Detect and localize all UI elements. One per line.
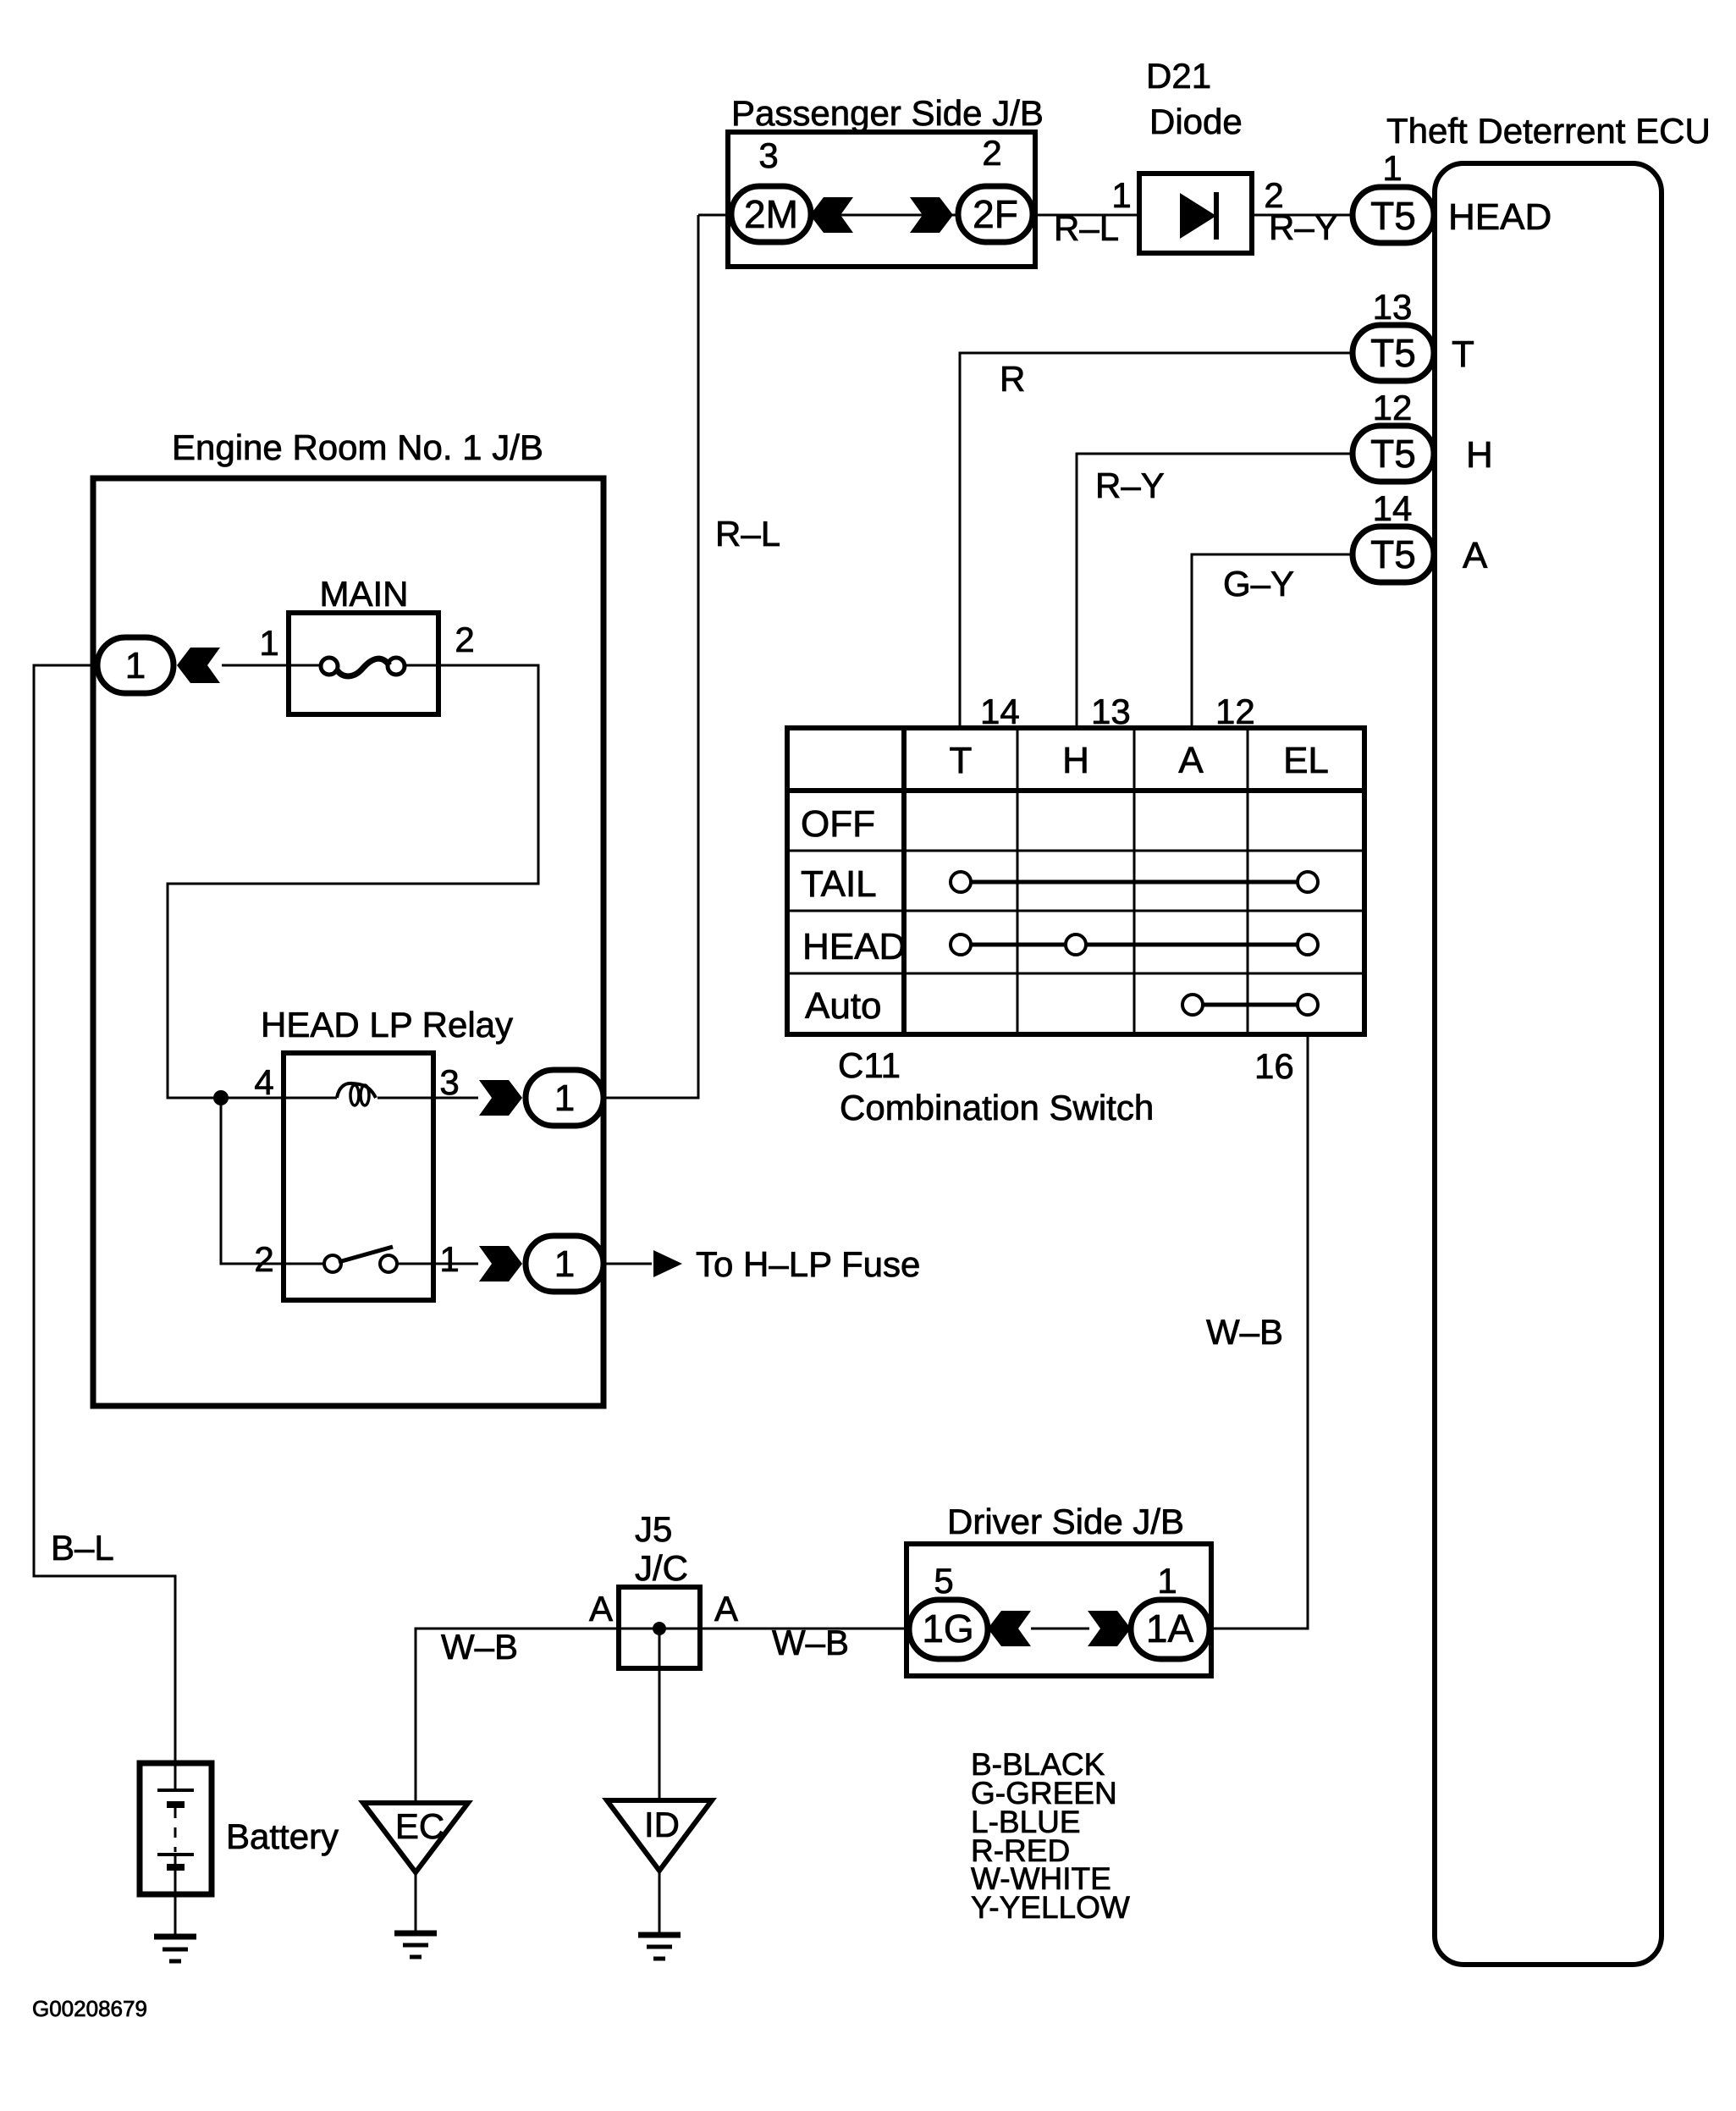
svg-text:R–Y: R–Y xyxy=(1269,207,1338,247)
svg-text:Driver Side J/B: Driver Side J/B xyxy=(947,1502,1184,1541)
svg-text:R–Y: R–Y xyxy=(1095,466,1165,505)
svg-text:R–L: R–L xyxy=(1054,208,1119,248)
svg-text:2: 2 xyxy=(254,1239,273,1279)
svg-text:J5: J5 xyxy=(635,1509,672,1549)
svg-text:EL: EL xyxy=(1283,740,1329,781)
svg-text:T: T xyxy=(1452,333,1474,375)
svg-text:Combination Switch: Combination Switch xyxy=(840,1088,1154,1127)
svg-text:1G: 1G xyxy=(922,1607,973,1651)
svg-text:A: A xyxy=(589,1589,613,1629)
svg-text:H: H xyxy=(1062,740,1089,781)
svg-text:T5: T5 xyxy=(1370,432,1416,476)
svg-text:Engine Room No. 1 J/B: Engine Room No. 1 J/B xyxy=(172,427,543,467)
svg-text:G00208679: G00208679 xyxy=(32,1996,147,2021)
svg-text:1: 1 xyxy=(439,1239,459,1279)
svg-text:12: 12 xyxy=(1215,692,1255,731)
svg-text:OFF: OFF xyxy=(801,803,875,845)
svg-text:2M: 2M xyxy=(744,192,798,236)
svg-text:Y-YELLOW: Y-YELLOW xyxy=(971,1890,1130,1925)
svg-text:H: H xyxy=(1466,434,1493,476)
svg-text:R: R xyxy=(1000,359,1025,399)
svg-text:Auto: Auto xyxy=(805,985,882,1027)
svg-text:W–B: W–B xyxy=(772,1623,849,1662)
svg-text:A: A xyxy=(1178,740,1204,781)
svg-text:5: 5 xyxy=(934,1561,953,1601)
svg-text:1: 1 xyxy=(1382,148,1402,188)
svg-text:TAIL: TAIL xyxy=(801,863,877,905)
svg-text:1: 1 xyxy=(259,623,278,663)
svg-text:R–L: R–L xyxy=(715,514,780,554)
svg-text:T: T xyxy=(950,740,973,781)
svg-text:4: 4 xyxy=(254,1062,273,1102)
svg-text:To H–LP Fuse: To H–LP Fuse xyxy=(696,1244,920,1284)
svg-text:Diode: Diode xyxy=(1149,102,1243,141)
svg-text:A: A xyxy=(714,1589,738,1629)
svg-text:Theft Deterrent ECU: Theft Deterrent ECU xyxy=(1386,111,1711,151)
svg-text:12: 12 xyxy=(1373,388,1413,427)
svg-text:T5: T5 xyxy=(1370,532,1416,576)
svg-text:16: 16 xyxy=(1254,1046,1294,1086)
svg-text:A: A xyxy=(1463,535,1488,576)
svg-text:HEAD: HEAD xyxy=(802,926,906,967)
svg-text:1: 1 xyxy=(125,645,146,686)
svg-text:1: 1 xyxy=(554,1243,575,1285)
svg-text:2F: 2F xyxy=(973,192,1018,236)
svg-text:14: 14 xyxy=(1373,488,1413,528)
svg-text:13: 13 xyxy=(1373,287,1413,327)
svg-text:1: 1 xyxy=(554,1078,575,1119)
svg-text:W–B: W–B xyxy=(441,1627,518,1667)
svg-text:D21: D21 xyxy=(1146,56,1211,96)
svg-text:14: 14 xyxy=(980,692,1020,731)
svg-text:EC: EC xyxy=(395,1806,444,1846)
svg-text:C11: C11 xyxy=(838,1045,901,1085)
svg-text:G–Y: G–Y xyxy=(1223,564,1294,604)
svg-text:J/C: J/C xyxy=(635,1548,688,1588)
svg-text:2: 2 xyxy=(455,620,474,659)
svg-text:Passenger Side J/B: Passenger Side J/B xyxy=(731,93,1044,133)
svg-text:1: 1 xyxy=(1157,1561,1177,1601)
svg-text:W–B: W–B xyxy=(1206,1312,1283,1352)
svg-text:Battery: Battery xyxy=(226,1816,339,1856)
svg-text:B–L: B–L xyxy=(51,1528,114,1568)
svg-text:1A: 1A xyxy=(1146,1607,1194,1651)
svg-text:2: 2 xyxy=(982,133,1001,173)
svg-text:HEAD: HEAD xyxy=(1448,196,1551,238)
svg-text:3: 3 xyxy=(439,1062,459,1102)
svg-text:MAIN: MAIN xyxy=(320,574,409,614)
svg-text:T5: T5 xyxy=(1370,194,1416,238)
svg-text:T5: T5 xyxy=(1370,331,1416,375)
svg-text:ID: ID xyxy=(644,1805,680,1844)
svg-text:HEAD LP Relay: HEAD LP Relay xyxy=(261,1005,513,1044)
svg-text:13: 13 xyxy=(1091,692,1131,731)
svg-text:3: 3 xyxy=(758,135,778,175)
